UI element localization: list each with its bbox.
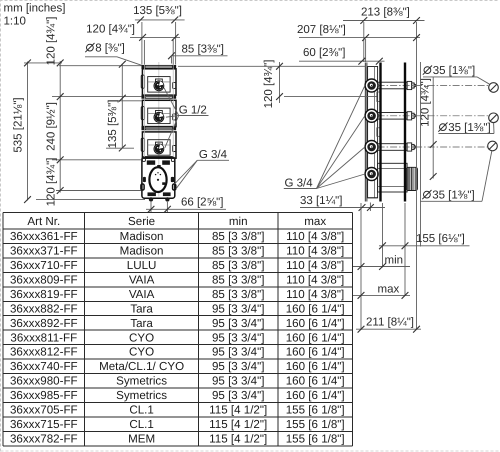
svg-text:36xxx819-FF: 36xxx819-FF bbox=[10, 288, 78, 301]
tick 213 left bbox=[360, 17, 367, 24]
svg-text:35 [1⅜"]: 35 [1⅜"] bbox=[432, 190, 474, 202]
bolt centerline left through modules bbox=[143, 65, 145, 158]
211 dim line bbox=[356, 328, 421, 330]
divider rail between module 1 and 2 bbox=[142, 95, 176, 98]
table row border 8 bbox=[3, 344, 353, 346]
valve module 2 left tab bbox=[141, 107, 144, 120]
thermostat left side port bbox=[141, 184, 144, 190]
table vertical border 3 bbox=[277, 212, 279, 445]
svg-text:36xxx782-FF: 36xxx782-FF bbox=[10, 432, 78, 445]
svg-text:85 [3⅜"]: 85 [3⅜"] bbox=[182, 44, 224, 56]
table vertical border 2 bbox=[197, 212, 199, 445]
svg-text:Madison: Madison bbox=[120, 245, 164, 258]
tick 66 right bbox=[164, 206, 171, 213]
svg-text:115 [4 1/2"]: 115 [4 1/2"] bbox=[209, 404, 267, 417]
foot left bbox=[149, 197, 153, 201]
svg-text:160 [6 1/4"]: 160 [6 1/4"] bbox=[286, 360, 345, 373]
pipe cap 1 bbox=[407, 81, 412, 89]
svg-text:VAIA: VAIA bbox=[129, 273, 155, 286]
extension line right top (x175.6) bbox=[175, 22, 177, 65]
tick 120 left bbox=[139, 34, 146, 41]
svg-text:Tara: Tara bbox=[130, 302, 153, 315]
svg-text:120 [4¾"]: 120 [4¾"] bbox=[86, 23, 135, 35]
svg-text:240 [9½"]: 240 [9½"] bbox=[46, 102, 58, 151]
tick chain bottom bbox=[57, 187, 64, 194]
svg-text:CL.1: CL.1 bbox=[129, 418, 154, 431]
svg-text:mm [inches]: mm [inches] bbox=[4, 3, 66, 15]
svg-text:95 [3 3/4"]: 95 [3 3/4"] bbox=[212, 346, 264, 359]
valve 3 circle G1/2 port bbox=[154, 144, 164, 154]
side view back plate bbox=[364, 63, 366, 202]
svg-text:60 [2⅜"]: 60 [2⅜"] bbox=[303, 47, 345, 59]
thermostat block (side) bbox=[378, 163, 408, 192]
tick 66 left bbox=[148, 206, 155, 213]
svg-text:8 [⅜"]: 8 [⅜"] bbox=[95, 43, 125, 55]
valve module 1 left tab bbox=[141, 75, 144, 88]
extension line y96.6 side bbox=[284, 96, 377, 98]
label diameter 35 #1 bbox=[423, 65, 475, 77]
svg-text:535 [21⅛"]: 535 [21⅛"] bbox=[13, 97, 25, 152]
svg-text:36xxx811-FF: 36xxx811-FF bbox=[10, 331, 77, 344]
svg-text:VAIA: VAIA bbox=[129, 288, 155, 301]
svg-text:Tara: Tara bbox=[130, 317, 153, 330]
pipe end circle 1 diameter 35 bbox=[489, 83, 499, 93]
svg-text:110 [4 3/8"]: 110 [4 3/8"] bbox=[286, 288, 344, 301]
pipe centerline 2 bbox=[378, 115, 489, 117]
tick 213 right bbox=[413, 17, 420, 24]
table row border 11 bbox=[3, 387, 353, 389]
svg-text:36xxx809-FF: 36xxx809-FF bbox=[10, 273, 78, 286]
tick chain top bbox=[57, 60, 64, 67]
pipe end circle 3 diameter 35 bbox=[488, 141, 498, 151]
svg-text:36xxx715-FF: 36xxx715-FF bbox=[10, 418, 78, 431]
table row border 1 bbox=[3, 242, 353, 244]
dim line 135 top width bbox=[135, 19, 185, 21]
svg-text:CYO: CYO bbox=[129, 346, 154, 359]
tick 120 right bbox=[172, 34, 179, 41]
foot right bbox=[165, 197, 169, 201]
wall bracket upper bbox=[377, 92, 381, 102]
side 120 dim line bbox=[279, 62, 281, 103]
thermostat unit body (front) bbox=[142, 157, 175, 198]
svg-text:213 [8⅜"]: 213 [8⅜"] bbox=[361, 6, 410, 18]
bolt centerline right through modules bbox=[172, 65, 174, 158]
dim line 120 hole distance bbox=[130, 36, 180, 38]
pipe centerline 1 bbox=[378, 85, 489, 87]
svg-text:160 [6 1/4"]: 160 [6 1/4"] bbox=[286, 389, 345, 402]
side port circle 1 bbox=[365, 79, 378, 92]
svg-text:95 [3 3/4"]: 95 [3 3/4"] bbox=[212, 331, 264, 344]
valve module 2 body bbox=[142, 100, 176, 126]
svg-text:MEM: MEM bbox=[128, 432, 155, 445]
tick 211 right bbox=[413, 326, 420, 333]
extension line y62.9 to 535-line bbox=[24, 62, 62, 64]
svg-text:Symetrics: Symetrics bbox=[116, 389, 167, 402]
thermostat top screw rect right bbox=[162, 160, 170, 164]
svg-text:CYO: CYO bbox=[129, 331, 154, 344]
tick min left bbox=[358, 263, 365, 270]
svg-text:120 [4¾"]: 120 [4¾"] bbox=[46, 17, 58, 66]
tick 85 bbox=[168, 52, 175, 59]
extension line y66.3 connecting views bbox=[178, 65, 366, 67]
G 1/2 leader lines bbox=[164, 88, 179, 116]
thermostat cylinder rings bbox=[406, 167, 417, 190]
table row border 5 bbox=[3, 300, 353, 302]
side port circle 3 bbox=[365, 141, 378, 154]
table row border 4 bbox=[3, 286, 353, 288]
svg-text:CL.1: CL.1 bbox=[129, 404, 154, 417]
svg-text:155 [6 1/8"]: 155 [6 1/8"] bbox=[286, 432, 345, 445]
thermostat top screw rect left bbox=[147, 160, 155, 164]
table row border 13 bbox=[3, 416, 353, 418]
svg-text:36xxx361-FF: 36xxx361-FF bbox=[10, 230, 78, 243]
extension x361 down bbox=[360, 203, 362, 330]
valve 1 circle G1/2 port bbox=[154, 81, 164, 91]
dim line 213 bbox=[343, 20, 425, 22]
extension x405 down bbox=[404, 203, 406, 296]
pipe stem 3 bbox=[378, 144, 408, 151]
table vertical border 1 bbox=[84, 212, 86, 445]
valve module 1 body bbox=[142, 69, 176, 95]
svg-text:36xxx980-FF: 36xxx980-FF bbox=[10, 375, 78, 388]
svg-text:120 [4¾"]: 120 [4¾"] bbox=[420, 78, 432, 127]
table row border 10 bbox=[3, 373, 353, 375]
tick 60 left bbox=[358, 58, 365, 65]
pipe nipple 2 bbox=[412, 113, 414, 118]
wall bracket lower bbox=[377, 128, 381, 137]
thermostat right side port bbox=[173, 184, 176, 190]
table row border 12 bbox=[3, 401, 353, 403]
valve module 2 cap bbox=[156, 111, 163, 114]
tick chain v2 bbox=[57, 156, 64, 163]
tick side120 top bbox=[276, 63, 283, 70]
155 dim line bbox=[379, 245, 470, 247]
svg-text:max: max bbox=[378, 284, 400, 296]
svg-text:36xxx740-FF: 36xxx740-FF bbox=[10, 360, 78, 373]
dim line 60 bbox=[299, 60, 385, 62]
svg-text:135 [5⅜"]: 135 [5⅜"] bbox=[133, 5, 182, 17]
table horizontal border top bbox=[3, 211, 353, 213]
label diameter 8 [3/8"] bbox=[85, 43, 125, 55]
thermostat oval G3/4 cartridge bbox=[149, 167, 166, 192]
pipe nipple 1 bbox=[412, 83, 414, 88]
thermostat bottom screw rect left bbox=[148, 192, 156, 196]
pipe nipple 3 bbox=[412, 144, 414, 149]
svg-text:95 [3 3/4"]: 95 [3 3/4"] bbox=[212, 360, 264, 373]
svg-text:36xxx705-FF: 36xxx705-FF bbox=[10, 404, 78, 417]
tick 33 right bbox=[367, 204, 374, 211]
table row border 9 bbox=[3, 358, 353, 360]
svg-text:33 [1¼"]: 33 [1¼"] bbox=[300, 195, 342, 207]
svg-text:120 [4¾"]: 120 [4¾"] bbox=[46, 158, 58, 207]
side port circle 2 bbox=[365, 109, 378, 122]
min dim line bbox=[353, 266, 410, 268]
tick r120 upper bbox=[430, 141, 437, 148]
135 vertical dim line bbox=[121, 64, 123, 149]
tick 60 right bbox=[376, 58, 383, 65]
svg-text:160 [6 1/4"]: 160 [6 1/4"] bbox=[286, 346, 345, 359]
svg-text:36xxx812-FF: 36xxx812-FF bbox=[10, 346, 78, 359]
svg-text:95 [3 3/4"]: 95 [3 3/4"] bbox=[212, 302, 264, 315]
pipe cap 3 bbox=[407, 143, 412, 151]
extension x382.5 down bbox=[382, 203, 384, 268]
svg-text:G 3/4: G 3/4 bbox=[285, 177, 314, 189]
extension line left top (x141.9) bbox=[141, 22, 143, 65]
svg-text:110 [4 3/8"]: 110 [4 3/8"] bbox=[286, 245, 344, 258]
label diameter 35 #3 bbox=[422, 190, 474, 202]
svg-text:Symetrics: Symetrics bbox=[116, 375, 167, 388]
extension line y96.6 bbox=[52, 96, 142, 98]
tick 535 top bbox=[24, 60, 31, 67]
table row border 14 bbox=[3, 430, 353, 432]
tick 135v mid bbox=[119, 95, 126, 102]
svg-text:36xxx985-FF: 36xxx985-FF bbox=[10, 389, 78, 402]
tick 211 left bbox=[358, 326, 365, 333]
85 dim underline/leader bbox=[172, 55, 228, 57]
svg-text:115 [4 1/2"]: 115 [4 1/2"] bbox=[209, 418, 267, 431]
tick 535 bottom bbox=[24, 196, 31, 203]
svg-text:Serie: Serie bbox=[128, 215, 155, 228]
extension x420.5 down bbox=[420, 62, 422, 247]
divider rail between module 2 and 3 bbox=[142, 127, 176, 130]
thermostat left flange tab bbox=[143, 177, 146, 182]
table row border 15 bbox=[3, 445, 353, 447]
extension line right top inner (x173.2) bbox=[172, 40, 174, 65]
valve module 3 body bbox=[142, 132, 176, 158]
tick 155 right bbox=[402, 242, 409, 249]
table header bottom border bbox=[3, 228, 353, 230]
svg-text:115 [4 1/2"]: 115 [4 1/2"] bbox=[209, 432, 267, 445]
thermostat small center marks bbox=[157, 179, 159, 181]
svg-text:85 [3 3/8"]: 85 [3 3/8"] bbox=[212, 288, 264, 301]
svg-text:155 [6 1/8"]: 155 [6 1/8"] bbox=[286, 418, 345, 431]
svg-text:155 [6 1/8"]: 155 [6 1/8"] bbox=[286, 404, 345, 417]
table row border 3 bbox=[3, 271, 353, 273]
svg-text:1:10: 1:10 bbox=[4, 16, 26, 28]
svg-text:66 [2⅝"]: 66 [2⅝"] bbox=[181, 197, 223, 209]
table row border 7 bbox=[3, 329, 353, 331]
pipe stem 1 bbox=[378, 82, 408, 89]
svg-text:155 [6⅛"]: 155 [6⅛"] bbox=[416, 233, 465, 245]
66 dim extension lines from feet bbox=[150, 202, 152, 212]
thermostat top-right corner tab bbox=[171, 157, 174, 161]
tick r120 lower bbox=[430, 173, 437, 180]
valve module 3 cap bbox=[156, 142, 163, 145]
svg-text:Madison: Madison bbox=[120, 230, 164, 243]
extension line y159.8 bbox=[52, 159, 142, 161]
dim line 66 bbox=[146, 208, 226, 210]
valve 2 circle G1/2 port bbox=[154, 112, 164, 122]
svg-text:85 [3 3/8"]: 85 [3 3/8"] bbox=[212, 273, 264, 286]
extension x363.8 bbox=[363, 22, 365, 62]
extension x416.5 (front reference) bbox=[416, 22, 418, 329]
svg-text:95 [3 3/4"]: 95 [3 3/4"] bbox=[212, 375, 264, 388]
tick 155 left bbox=[379, 242, 386, 249]
table vertical border 4 bbox=[352, 212, 354, 445]
svg-text:Meta/CL.1/ CYO: Meta/CL.1/ CYO bbox=[99, 360, 184, 373]
svg-text:207 [8⅛"]: 207 [8⅛"] bbox=[297, 24, 346, 36]
G 1/2 label underline bbox=[179, 115, 209, 117]
svg-text:211 [8¼"]: 211 [8¼"] bbox=[366, 317, 414, 329]
tick min right bbox=[379, 263, 386, 270]
svg-text:160 [6 1/4"]: 160 [6 1/4"] bbox=[286, 317, 345, 330]
svg-text:Art Nr.: Art Nr. bbox=[27, 215, 60, 228]
svg-text:135 [5⅜"]: 135 [5⅜"] bbox=[107, 100, 119, 149]
pipe end circle 2 diameter 35 bbox=[489, 113, 499, 123]
valve module 2 right tab bbox=[173, 114, 176, 120]
tick max right bbox=[402, 292, 409, 299]
G 3/4 front label underline bbox=[197, 159, 229, 161]
120 vertical dim line right bbox=[432, 77, 434, 179]
tick 135v bottom bbox=[119, 145, 126, 152]
33 dim line bbox=[300, 207, 385, 209]
wall line back bbox=[379, 63, 381, 202]
svg-text:36xxx710-FF: 36xxx710-FF bbox=[10, 259, 78, 272]
33 dim right extension stub bbox=[369, 203, 371, 212]
svg-text:G 1/2: G 1/2 bbox=[179, 104, 207, 116]
svg-text:85 [3 3/8"]: 85 [3 3/8"] bbox=[212, 245, 264, 258]
side body bottom edge bbox=[368, 197, 378, 199]
svg-text:160 [6 1/4"]: 160 [6 1/4"] bbox=[286, 331, 345, 344]
svg-text:min: min bbox=[229, 215, 248, 228]
pipe cap 2 bbox=[407, 112, 412, 120]
body internal vertical line bbox=[374, 67, 376, 198]
thermostat top-left corner tab bbox=[142, 157, 145, 161]
thermostat right flange tab bbox=[171, 177, 174, 182]
tick chain v1 bbox=[57, 93, 64, 100]
extension line y199.6 bbox=[36, 199, 145, 201]
extension line left top inner (x144.4) bbox=[143, 40, 145, 65]
dim line 207 bbox=[299, 37, 420, 39]
valve module 1 cap bbox=[156, 79, 163, 82]
tick 33 left bbox=[359, 204, 366, 211]
tick 135v top bbox=[119, 61, 126, 68]
tick 207 right bbox=[413, 34, 420, 41]
thermostat bottom screw rect right bbox=[163, 192, 171, 196]
svg-text:110 [4 3/8"]: 110 [4 3/8"] bbox=[286, 273, 344, 286]
tick 207 left bbox=[362, 34, 369, 41]
pipe stem 2 bbox=[378, 113, 408, 120]
extension line y65.7 body top bbox=[59, 65, 142, 67]
svg-text:36xxx882-FF: 36xxx882-FF bbox=[10, 302, 78, 315]
svg-text:120 [4¾"]: 120 [4¾"] bbox=[263, 60, 275, 109]
table row border 2 bbox=[3, 257, 353, 259]
extension line y190.5 bbox=[56, 190, 141, 192]
svg-text:160 [6 1/4"]: 160 [6 1/4"] bbox=[286, 302, 345, 315]
tick 135 left bbox=[137, 17, 144, 24]
svg-text:36xxx892-FF: 36xxx892-FF bbox=[10, 317, 78, 330]
thermostat oval top notch bbox=[157, 165, 161, 168]
svg-text:110 [4 3/8"]: 110 [4 3/8"] bbox=[286, 259, 344, 272]
svg-text:160 [6 1/4"]: 160 [6 1/4"] bbox=[286, 375, 345, 388]
extension x365.6 bbox=[365, 39, 367, 62]
pipe centerline 3 bbox=[378, 146, 489, 148]
leader line for diameter 8 bbox=[85, 57, 141, 65]
extension line y148.2 short bbox=[106, 147, 134, 149]
svg-text:max: max bbox=[304, 215, 326, 228]
centerline front view bbox=[158, 62, 160, 197]
extension stub 85 bbox=[171, 56, 173, 64]
valve module 3 right tab bbox=[173, 146, 176, 152]
svg-text:G 3/4: G 3/4 bbox=[199, 149, 228, 161]
535 dimension line bbox=[27, 62, 29, 201]
extension line y100.8 bbox=[108, 100, 142, 102]
svg-text:110 [4 3/8"]: 110 [4 3/8"] bbox=[286, 230, 344, 243]
valve module 1 right tab bbox=[173, 82, 176, 88]
svg-text:LULU: LULU bbox=[127, 259, 157, 272]
table row border 6 bbox=[3, 315, 353, 317]
max dim line bbox=[353, 294, 410, 296]
front top mounting rail bbox=[142, 65, 176, 68]
wall line front bbox=[404, 63, 406, 202]
side port circle 4 bbox=[365, 168, 378, 181]
svg-text:95 [3 3/4"]: 95 [3 3/4"] bbox=[212, 389, 264, 402]
table vertical border 0 bbox=[2, 212, 4, 445]
G 3/4 side label underline bbox=[284, 188, 317, 190]
svg-text:85 [3 3/8"]: 85 [3 3/8"] bbox=[212, 259, 264, 272]
valve module 3 left tab bbox=[141, 138, 144, 151]
svg-text:36xxx371-FF: 36xxx371-FF bbox=[10, 245, 78, 258]
svg-text:35 [1⅜"]: 35 [1⅜"] bbox=[448, 122, 490, 134]
120/240/120 chain dimension line bbox=[59, 61, 61, 193]
tick side120 bottom bbox=[276, 93, 283, 100]
side view body column bbox=[368, 67, 378, 198]
tick max left bbox=[358, 292, 365, 299]
svg-text:35 [1⅜"]: 35 [1⅜"] bbox=[433, 65, 475, 77]
G 3/4 leader lines (front) bbox=[175, 160, 198, 184]
tick 135 right bbox=[171, 17, 178, 24]
label diameter 35 #2 bbox=[438, 122, 490, 134]
svg-text:min: min bbox=[385, 255, 404, 267]
svg-text:95 [3 3/4"]: 95 [3 3/4"] bbox=[212, 317, 264, 330]
svg-text:85 [3 3/8"]: 85 [3 3/8"] bbox=[212, 230, 264, 243]
